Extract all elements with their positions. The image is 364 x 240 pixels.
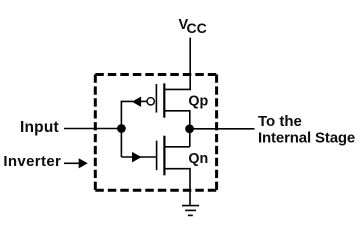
svg-text:Input: Input bbox=[20, 119, 59, 136]
svg-text:Internal Stage: Internal Stage bbox=[258, 130, 355, 147]
svg-text:Qp: Qp bbox=[188, 93, 208, 109]
svg-text:To the: To the bbox=[258, 113, 302, 130]
svg-text:Inverter: Inverter bbox=[3, 153, 61, 170]
svg-text:Qn: Qn bbox=[188, 151, 208, 167]
svg-text:VCC: VCC bbox=[179, 17, 207, 36]
